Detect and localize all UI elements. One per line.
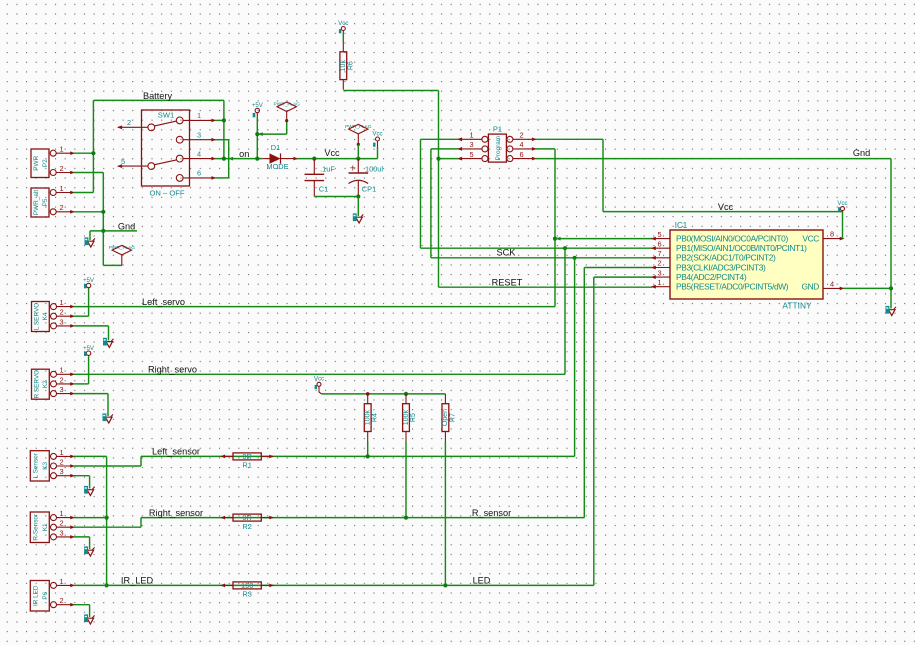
svg-text:100ul: 100ul <box>365 165 383 174</box>
svg-text:PWR_alt: PWR_alt <box>33 190 40 215</box>
svg-text:VCC: VCC <box>802 233 819 243</box>
svg-text:IR_LED: IR_LED <box>121 576 154 586</box>
svg-text:Right_servo: Right_servo <box>148 365 197 375</box>
svg-text:2: 2 <box>59 457 63 466</box>
svg-text:3: 3 <box>469 140 473 149</box>
svg-text:MODE: MODE <box>266 162 288 171</box>
svg-text:4: 4 <box>197 149 201 158</box>
svg-text:IC1: IC1 <box>675 221 688 230</box>
svg-text:L Sensor: L Sensor <box>33 452 40 478</box>
svg-text:6: 6 <box>197 169 201 178</box>
svg-text:PB3(CLKI/ADC3/PCINT3): PB3(CLKI/ADC3/PCINT3) <box>676 262 766 272</box>
svg-text:Vcc: Vcc <box>837 200 847 207</box>
svg-text:0R: 0R <box>242 513 251 522</box>
svg-text:2: 2 <box>127 118 131 127</box>
svg-text:3: 3 <box>657 268 661 277</box>
svg-text:R1: R1 <box>242 461 251 470</box>
svg-text:1: 1 <box>59 366 63 375</box>
svg-text:PB4(ADC2/PCINT4): PB4(ADC2/PCINT4) <box>676 272 747 282</box>
svg-text:6: 6 <box>657 239 661 248</box>
svg-text:R3: R3 <box>242 590 251 599</box>
svg-text:2: 2 <box>59 308 63 317</box>
svg-text:Left_servo: Left_servo <box>142 297 185 307</box>
svg-text:1: 1 <box>59 448 63 457</box>
svg-text:2: 2 <box>59 164 63 173</box>
svg-text:2: 2 <box>59 203 63 212</box>
svg-text:GND: GND <box>801 282 819 292</box>
svg-text:1: 1 <box>59 509 63 518</box>
svg-text:100k: 100k <box>403 410 410 426</box>
svg-text:ATTINY: ATTINY <box>782 301 812 311</box>
svg-text:PB1(MISO/AIN1/OC0B/INT0/PCINT1: PB1(MISO/AIN1/OC0B/INT0/PCINT1) <box>676 243 807 253</box>
svg-text:K2: K2 <box>42 380 49 388</box>
svg-text:R SERVO: R SERVO <box>34 370 41 399</box>
svg-text:1: 1 <box>59 577 63 586</box>
svg-text:1: 1 <box>657 278 661 287</box>
svg-text:CP1: CP1 <box>362 185 376 194</box>
svg-text:Vcc: Vcc <box>338 20 348 27</box>
svg-text:5: 5 <box>469 150 473 159</box>
svg-text:D1: D1 <box>271 143 280 152</box>
svg-text:P1: P1 <box>493 125 502 134</box>
svg-text:Vcc: Vcc <box>372 130 382 137</box>
svg-text:Left_sensor: Left_sensor <box>152 447 200 457</box>
svg-text:RESET: RESET <box>492 277 523 287</box>
svg-text:+: + <box>350 163 356 175</box>
svg-text:R4: R4 <box>372 413 379 422</box>
svg-text:2: 2 <box>657 259 661 268</box>
svg-text:SCK: SCK <box>497 247 517 257</box>
svg-text:1: 1 <box>197 111 201 120</box>
svg-text:4: 4 <box>519 140 523 149</box>
svg-text:7: 7 <box>657 249 661 258</box>
svg-text:P6: P6 <box>42 591 49 599</box>
svg-text:.1uF: .1uF <box>320 165 335 174</box>
svg-text:R Sensor: R Sensor <box>33 513 40 541</box>
svg-text:Gnd: Gnd <box>118 221 135 231</box>
svg-text:3: 3 <box>59 467 63 476</box>
svg-text:Vcc: Vcc <box>324 148 340 158</box>
svg-text:ON – OFF: ON – OFF <box>149 189 184 198</box>
svg-text:R6: R6 <box>347 61 354 70</box>
svg-text:1: 1 <box>469 131 473 140</box>
svg-text:K1: K1 <box>42 523 49 531</box>
svg-text:Vcc: Vcc <box>718 202 734 212</box>
svg-text:2: 2 <box>59 519 63 528</box>
svg-text:PWR: PWR <box>33 155 40 170</box>
svg-text:6: 6 <box>519 150 523 159</box>
svg-text:R5: R5 <box>410 413 417 422</box>
svg-text:LED: LED <box>473 576 491 586</box>
svg-text:2: 2 <box>59 375 63 384</box>
svg-text:Program: Program <box>495 136 502 161</box>
svg-text:C1: C1 <box>319 185 328 194</box>
svg-text:P2: P2 <box>42 159 49 167</box>
svg-text:PB0(MOSI/AIN0/OC0A/PCINT0): PB0(MOSI/AIN0/OC0A/PCINT0) <box>676 233 788 243</box>
svg-text:150: 150 <box>241 581 253 590</box>
svg-text:on: on <box>239 149 249 159</box>
svg-text:Right_sensor: Right_sensor <box>149 508 203 518</box>
svg-text:Gnd: Gnd <box>853 148 870 158</box>
svg-text:1: 1 <box>59 145 63 154</box>
svg-text:L SERVO: L SERVO <box>34 303 41 330</box>
svg-text:2: 2 <box>59 596 63 605</box>
svg-text:5: 5 <box>121 157 125 166</box>
svg-text:IR LED: IR LED <box>33 585 40 606</box>
svg-text:P5: P5 <box>42 198 49 206</box>
svg-text:3: 3 <box>59 528 63 537</box>
svg-text:5: 5 <box>657 230 661 239</box>
svg-text:K4: K4 <box>42 312 49 320</box>
svg-text:3: 3 <box>59 385 63 394</box>
svg-text:100k: 100k <box>365 410 372 426</box>
svg-text:8: 8 <box>830 230 834 239</box>
svg-text:Open: Open <box>442 409 449 426</box>
svg-text:K3: K3 <box>42 462 49 470</box>
svg-text:R_sensor: R_sensor <box>472 508 511 518</box>
svg-text:PB2(SCK/ADC1/T0/PCINT2): PB2(SCK/ADC1/T0/PCINT2) <box>676 253 776 263</box>
svg-text:0R: 0R <box>242 452 251 461</box>
svg-text:2: 2 <box>519 131 523 140</box>
svg-text:3: 3 <box>59 317 63 326</box>
svg-text:PB5(RESET/ADC0/PCINT5/dW): PB5(RESET/ADC0/PCINT5/dW) <box>676 282 789 292</box>
svg-text:R7: R7 <box>449 413 456 422</box>
svg-text:R2: R2 <box>242 522 251 531</box>
svg-text:4: 4 <box>830 279 834 288</box>
svg-text:SW1: SW1 <box>158 111 174 120</box>
svg-text:Battery: Battery <box>143 91 173 101</box>
svg-text:3: 3 <box>197 131 201 140</box>
svg-text:Vcc: Vcc <box>314 376 324 383</box>
svg-text:10k: 10k <box>340 60 347 72</box>
svg-text:1: 1 <box>59 298 63 307</box>
svg-text:1: 1 <box>59 184 63 193</box>
